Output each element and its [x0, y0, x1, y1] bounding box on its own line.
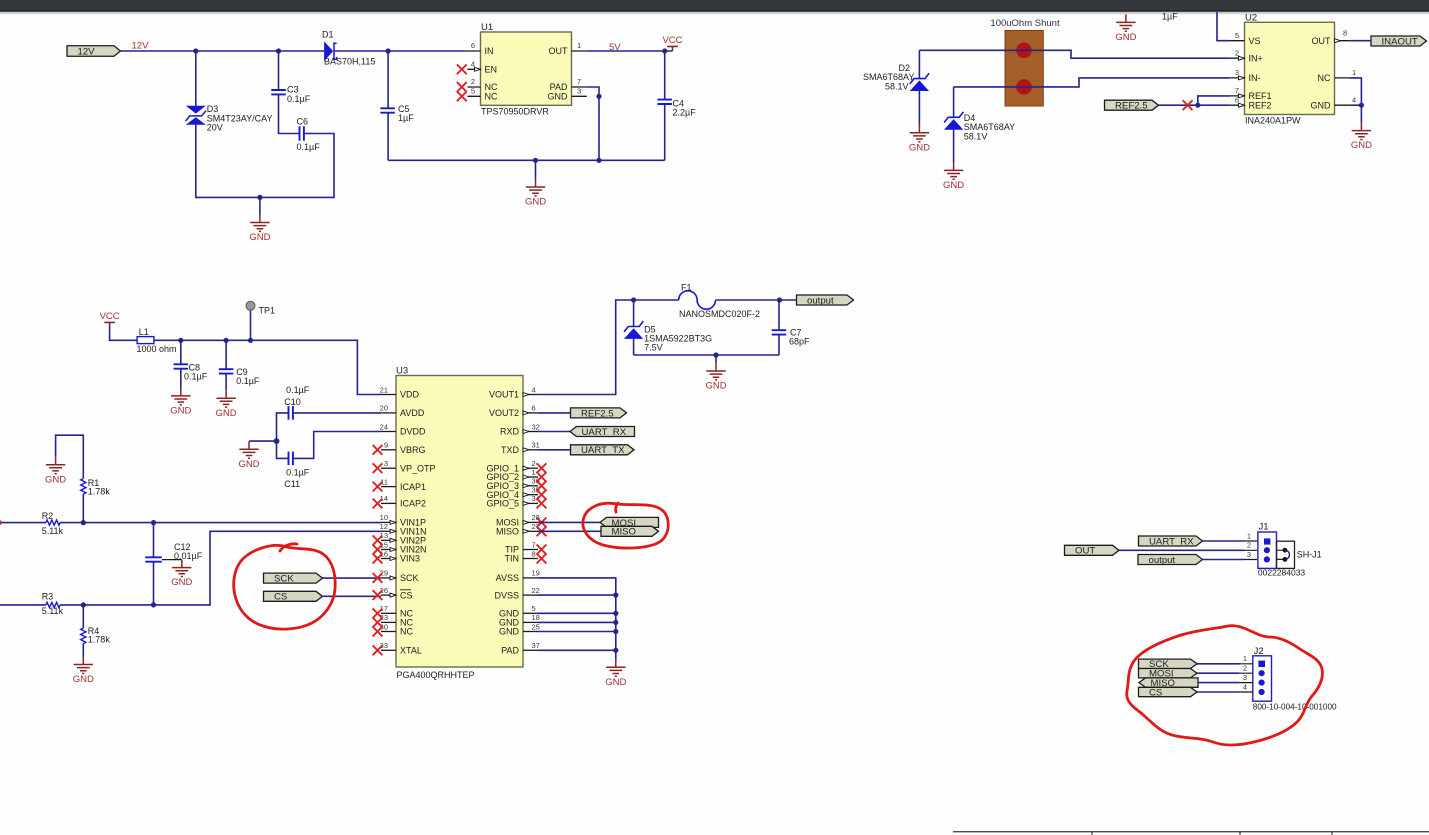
svg-text:F1: F1: [681, 283, 692, 293]
ground: [170, 388, 191, 417]
svg-text:C11: C11: [284, 479, 300, 489]
port OUT: [1065, 545, 1120, 556]
svg-text:5: 5: [532, 604, 536, 613]
no-connect X on REF wire: [1183, 100, 1193, 110]
svg-text:0.1µF: 0.1µF: [287, 94, 311, 104]
wire gnd pin to bus: [538, 612, 616, 614]
wire AVSS DVSS GND PAD bus: [538, 578, 616, 659]
svg-text:VS: VS: [1249, 36, 1261, 46]
svg-text:VIN3: VIN3: [400, 554, 420, 564]
svg-text:R3: R3: [42, 591, 54, 601]
port MOSI on U3: [600, 517, 659, 528]
svg-text:20: 20: [380, 404, 388, 413]
resistor R3: [42, 591, 64, 616]
svg-text:UART_RX: UART_RX: [1149, 536, 1194, 547]
toolbar drop shadow: [0, 0, 1, 1]
svg-text:MISO: MISO: [496, 527, 519, 537]
junction: [248, 338, 253, 343]
junction: [596, 158, 601, 163]
svg-text:58.1V: 58.1V: [885, 81, 909, 91]
junction: [178, 338, 183, 343]
svg-text:9: 9: [384, 441, 388, 450]
svg-text:IN: IN: [485, 46, 494, 56]
svg-text:3: 3: [577, 87, 581, 96]
wire VOUT1 riser to fuse rail: [538, 300, 679, 395]
svg-text:2: 2: [532, 459, 536, 468]
svg-text:C6: C6: [297, 116, 309, 126]
junction: [81, 602, 86, 607]
svg-text:RXD: RXD: [500, 427, 520, 437]
junction: [613, 648, 618, 653]
junction: [1195, 103, 1200, 108]
junction: [224, 338, 229, 343]
shunt jumper SH-J1: [1277, 541, 1322, 568]
resistor R1: [81, 478, 111, 497]
no-connect X on U3 pin 2: [537, 463, 547, 473]
svg-text:1µF: 1µF: [1162, 12, 1178, 22]
wire left to R3: [0, 604, 46, 606]
no-connect X on U3 pin 30: [373, 627, 383, 637]
red marker circle around MOSI MISO: [583, 503, 668, 548]
wire MOSI pin to port: [538, 521, 600, 523]
wire shunt top to U2 IN+: [919, 50, 1229, 58]
wire U1 OUT to VCC: [587, 50, 673, 52]
svg-text:2: 2: [1247, 541, 1251, 550]
wire bottom gnd rail: [388, 159, 665, 161]
svg-text:6: 6: [532, 404, 536, 413]
junction: [713, 352, 718, 357]
svg-text:REF2.5: REF2.5: [1115, 101, 1148, 112]
svg-text:2: 2: [1243, 664, 1247, 673]
junction: [151, 520, 156, 525]
svg-text:J1: J1: [1259, 522, 1269, 533]
port SCK to J2: [1139, 659, 1198, 670]
no-connect X on U3 pin 9: [373, 445, 383, 455]
capacitor C6: [297, 116, 321, 152]
svg-text:BAS70H,115: BAS70H,115: [324, 57, 375, 67]
wire TXD to UART_TX port: [538, 449, 571, 451]
svg-text:1.78k: 1.78k: [88, 487, 111, 497]
svg-text:1: 1: [1247, 531, 1251, 540]
junction: [777, 297, 782, 302]
capacitor C9: [219, 340, 260, 390]
capacitor C5: [380, 51, 414, 160]
svg-text:4: 4: [532, 385, 536, 394]
junction: [662, 48, 667, 53]
VCC power symbol: [100, 311, 120, 327]
no-connect X on U3 pin 15: [373, 545, 383, 555]
ground: [909, 125, 930, 154]
port UART_TX on U3: [571, 445, 635, 456]
ground: [605, 659, 626, 688]
junction: [533, 158, 538, 163]
no-connect X on U3 pin 27: [537, 526, 547, 536]
junction: [613, 593, 618, 598]
shunt pad top: [1016, 43, 1032, 59]
svg-text:U2: U2: [1245, 12, 1257, 23]
svg-text:1: 1: [532, 468, 536, 477]
wire gnd pin to bus: [538, 594, 616, 596]
port MOSI to J2: [1139, 669, 1198, 680]
port CS: [264, 591, 323, 602]
ground: [216, 390, 237, 419]
no-connect X on U3 pin 35: [537, 490, 547, 500]
svg-text:32: 32: [532, 422, 540, 431]
svg-text:8: 8: [1343, 29, 1347, 38]
ground: [171, 560, 192, 589]
svg-text:R2: R2: [42, 511, 54, 521]
svg-text:GND: GND: [525, 197, 546, 208]
wire R2 to U3 VIN1P: [60, 522, 381, 524]
svg-text:XTAL: XTAL: [400, 646, 422, 656]
svg-text:D1: D1: [322, 30, 334, 40]
svg-text:GND: GND: [605, 677, 626, 688]
no-connect X on U3 pin 16: [373, 554, 383, 564]
svg-text:IN+: IN+: [1249, 54, 1263, 64]
junction: [1359, 103, 1364, 108]
svg-text:ICAP2: ICAP2: [400, 499, 426, 509]
svg-text:VCC: VCC: [100, 311, 120, 322]
wire NC to GND: [1350, 78, 1362, 105]
junction: [631, 297, 636, 302]
ground: [1115, 14, 1136, 43]
wire rail to U3 VDD: [154, 340, 381, 394]
svg-text:OUT: OUT: [549, 46, 569, 56]
svg-text:12: 12: [380, 522, 388, 531]
svg-text:2: 2: [471, 77, 475, 86]
svg-text:U3: U3: [396, 366, 408, 377]
port MISO on U3: [601, 526, 659, 537]
svg-text:25: 25: [532, 622, 540, 631]
wire REF1 branch: [1198, 96, 1230, 105]
no-connect X on U1 NC5: [457, 91, 467, 101]
svg-text:GND: GND: [216, 408, 237, 419]
svg-text:GND: GND: [1311, 101, 1332, 111]
svg-text:U1: U1: [481, 22, 493, 33]
wire gnd pin to bus: [538, 621, 616, 623]
svg-text:EN: EN: [485, 65, 498, 75]
no-connect X on U3 pin 29: [373, 573, 383, 583]
wire D1 to U1 IN: [335, 50, 466, 52]
svg-text:4: 4: [1243, 682, 1247, 691]
svg-text:CS: CS: [400, 590, 413, 600]
svg-text:7: 7: [532, 540, 536, 549]
wire SCK to U3: [321, 577, 381, 579]
wire U1 PAD GND loop: [587, 87, 599, 160]
svg-text:L1: L1: [139, 327, 149, 337]
no-connect X on U3 pin 34: [537, 499, 547, 509]
capacitor C4: [657, 51, 696, 160]
svg-text:NC: NC: [1318, 73, 1331, 83]
svg-text:PGA400QRHHTEP: PGA400QRHHTEP: [397, 670, 475, 680]
resistor R4: [81, 605, 111, 657]
TVS diode D2: [863, 50, 929, 125]
svg-text:VBRG: VBRG: [400, 445, 426, 455]
junction: [613, 611, 618, 616]
capacitor C10: [277, 385, 382, 441]
capacitor C7: [772, 300, 810, 355]
svg-text:68pF: 68pF: [789, 337, 810, 347]
capacitor C3: [271, 51, 310, 134]
junction: [276, 48, 281, 53]
svg-text:12V: 12V: [78, 46, 96, 57]
wire CS to U3: [321, 595, 381, 597]
svg-text:NANOSMDC020F-2: NANOSMDC020F-2: [679, 309, 760, 319]
no-connect X on U3 pin 33: [373, 645, 383, 655]
no-connect X on U3 pin 8: [537, 554, 547, 564]
svg-text:5.11k: 5.11k: [42, 526, 64, 536]
svg-text:19: 19: [532, 569, 540, 578]
port output top: [797, 295, 854, 306]
port CS to J2: [1139, 687, 1198, 698]
IC U2 INA240A1PW: [1230, 12, 1356, 125]
svg-text:GND: GND: [170, 406, 191, 417]
svg-text:GND: GND: [943, 180, 964, 191]
svg-text:NC: NC: [400, 627, 413, 637]
no-ERC half X at left edge: [0, 518, 1, 527]
inductor L1: [137, 327, 177, 354]
svg-text:VCC: VCC: [662, 35, 682, 46]
svg-text:0022284033: 0022284033: [1258, 568, 1306, 578]
no-connect X on U3 pin 1: [537, 472, 547, 482]
svg-text:800-10-004-10-001000: 800-10-004-10-001000: [1253, 703, 1337, 712]
svg-text:TPS70950DRVR: TPS70950DRVR: [481, 106, 549, 116]
junction: [193, 48, 198, 53]
svg-text:VOUT2: VOUT2: [489, 408, 519, 418]
connector J2: [1240, 646, 1337, 712]
svg-text:INA240A1PW: INA240A1PW: [1245, 116, 1301, 126]
no-connect X on U3 pin 11: [373, 482, 383, 492]
junction: [151, 602, 156, 607]
ground: [1351, 123, 1372, 152]
svg-text:GND: GND: [238, 459, 259, 470]
svg-text:C10: C10: [284, 397, 301, 407]
connector J1: [1244, 522, 1305, 578]
wire fuse to output port: [716, 299, 797, 301]
wire MISO pin to port: [538, 530, 601, 532]
wire gnd pin to bus: [538, 649, 616, 651]
port MISO to J2: [1139, 678, 1198, 689]
svg-text:1.78k: 1.78k: [88, 634, 111, 644]
wire R1 top loop: [56, 435, 84, 478]
svg-text:GPIO_5: GPIO_5: [486, 499, 519, 509]
IC U1 TPS70950DRVR: [466, 22, 587, 116]
svg-text:output: output: [1149, 555, 1176, 566]
wire gnd tap: [249, 440, 277, 442]
wire gnd pin to bus: [538, 631, 616, 633]
port REF2.5 from U3: [571, 408, 627, 419]
svg-text:5.11k: 5.11k: [42, 606, 64, 616]
wire C12 gnd tap: [162, 559, 182, 561]
junction: [613, 629, 618, 634]
top toolbar bar: [0, 0, 1429, 12]
svg-text:0.1µF: 0.1µF: [286, 385, 310, 395]
IC U3 PGA400QRHHTEP: [380, 366, 540, 681]
svg-text:MISO: MISO: [612, 527, 637, 538]
capacitor C12: [145, 523, 202, 605]
wire RXD to UART_RX port: [538, 431, 570, 433]
svg-text:IN-: IN-: [1249, 73, 1261, 83]
capacitor C8: [174, 340, 208, 388]
svg-text:UART_RX: UART_RX: [582, 427, 627, 438]
capacitor C11: [277, 432, 382, 490]
no-connect X on U3 pin 23: [373, 618, 383, 628]
svg-text:22: 22: [532, 586, 540, 595]
no-connect X on U3 pin 26: [373, 590, 383, 600]
wire OUT to J1 pin2: [1119, 549, 1244, 551]
svg-text:0.1µF: 0.1µF: [184, 372, 208, 382]
port UART_RX to J1: [1139, 536, 1203, 547]
svg-text:21: 21: [380, 385, 388, 394]
wire GND pin: [1350, 104, 1362, 106]
svg-text:SH-J1: SH-J1: [1297, 549, 1322, 559]
shunt pad bottom: [1016, 79, 1032, 95]
wire R3 to VIN1N riser: [60, 531, 381, 605]
ground: [45, 457, 66, 486]
svg-text:ICAP1: ICAP1: [400, 482, 426, 492]
svg-text:CS: CS: [274, 592, 287, 603]
svg-text:VP_OTP: VP_OTP: [400, 463, 436, 473]
svg-text:100uOhm Shunt: 100uOhm Shunt: [990, 18, 1060, 29]
wire MOSI to J2 pin2: [1197, 672, 1240, 674]
svg-text:1: 1: [1243, 654, 1247, 663]
ground: [705, 363, 726, 392]
svg-text:0.1µF: 0.1µF: [297, 142, 321, 152]
no-connect X on U1 NC2: [457, 82, 467, 92]
svg-text:INAOUT: INAOUT: [1382, 36, 1418, 47]
no-connect X on U3 pin 7: [537, 545, 547, 555]
svg-text:TP1: TP1: [259, 306, 276, 316]
wire U2 OUT to INAOUT: [1350, 40, 1371, 42]
svg-text:0.1µF: 0.1µF: [286, 467, 310, 477]
shunt resistor body: [1005, 31, 1043, 107]
wire shunt bottom to U2 IN-: [954, 78, 1230, 87]
wire 12V to D1: [121, 50, 325, 52]
svg-text:12V: 12V: [132, 41, 150, 52]
no-connect X on U3 pin 13: [373, 535, 383, 545]
red marker circle around J2 connector: [1127, 626, 1323, 745]
svg-text:20V: 20V: [207, 123, 223, 133]
sheet border line bottom right: [953, 832, 1429, 835]
svg-text:TXD: TXD: [501, 445, 520, 455]
svg-text:3: 3: [1243, 673, 1247, 682]
svg-text:1: 1: [577, 41, 581, 50]
wire REF2.5 to REF pins: [1159, 104, 1230, 106]
svg-text:SCK: SCK: [400, 573, 419, 583]
svg-text:7: 7: [577, 77, 581, 86]
junction: [613, 620, 618, 625]
svg-text:PAD: PAD: [501, 646, 519, 656]
wire left to R2: [1, 522, 46, 524]
svg-text:GND: GND: [45, 474, 66, 485]
svg-text:GND: GND: [249, 232, 270, 243]
TVS diode D3: [186, 51, 273, 133]
svg-text:NC: NC: [485, 92, 498, 102]
svg-text:AVDD: AVDD: [400, 408, 425, 418]
svg-text:3: 3: [1247, 550, 1251, 559]
wire MISO to J2 pin3: [1198, 682, 1240, 684]
wire VS supply from top: [1217, 12, 1230, 41]
ground: [943, 162, 964, 191]
no-connect X on U3 pin 28: [537, 518, 547, 528]
svg-text:TIN: TIN: [505, 554, 520, 564]
svg-text:CS: CS: [1149, 687, 1162, 698]
wire CS to J2 pin4: [1197, 691, 1240, 693]
no-connect X on U3 pin 36: [537, 481, 547, 491]
svg-text:8: 8: [532, 549, 536, 558]
diode D1: [322, 30, 375, 67]
svg-text:GND: GND: [73, 674, 94, 685]
svg-text:1µF: 1µF: [398, 113, 414, 123]
svg-text:DVSS: DVSS: [494, 590, 519, 600]
svg-text:58.1V: 58.1V: [964, 131, 988, 141]
svg-text:4: 4: [1352, 95, 1356, 104]
junction: [596, 94, 601, 99]
no-connect X on U3 pin 14: [373, 499, 383, 509]
junction: [386, 48, 391, 53]
wire VOUT2 to REF2.5 port: [538, 412, 571, 414]
svg-text:31: 31: [532, 441, 540, 450]
ground: [525, 179, 546, 208]
svg-text:6: 6: [471, 41, 475, 50]
ground: [249, 215, 270, 244]
svg-text:5: 5: [471, 87, 475, 96]
port SCK: [264, 573, 323, 584]
svg-text:GND: GND: [1115, 32, 1136, 43]
port output to J1: [1138, 555, 1203, 566]
svg-text:OUT: OUT: [1075, 546, 1095, 557]
wire D3 to ground loop: [196, 125, 334, 198]
svg-text:GND: GND: [1351, 140, 1372, 151]
test point TP1: [246, 301, 275, 340]
svg-text:OUT: OUT: [1312, 36, 1332, 46]
wire VCC to L1 rail: [110, 327, 138, 341]
svg-text:SCK: SCK: [274, 574, 294, 585]
wire output to J1 pin3: [1203, 559, 1245, 561]
svg-text:GND: GND: [499, 627, 520, 637]
no-connect X on U1 EN: [457, 64, 467, 74]
svg-text:REF2: REF2: [1249, 101, 1272, 111]
svg-text:28: 28: [532, 513, 540, 522]
svg-text:24: 24: [380, 422, 388, 431]
TVS diode D4: [944, 87, 1015, 162]
svg-text:GND: GND: [171, 577, 192, 588]
svg-text:REF2.5: REF2.5: [581, 408, 614, 419]
svg-text:7.5V: 7.5V: [644, 343, 663, 353]
svg-text:AVSS: AVSS: [496, 573, 519, 583]
port UART_RX on U3: [570, 427, 635, 438]
wire SCK to J2 pin1: [1197, 663, 1240, 665]
ground: [73, 657, 94, 686]
wire R1 to R2 rail: [82, 494, 84, 522]
port 12V: [67, 46, 121, 58]
wire UART_RX to J1 pin1: [1203, 540, 1245, 542]
TVS diode D5: [624, 300, 712, 355]
svg-text:1: 1: [1352, 68, 1356, 77]
red marker circle around SCK CS: [234, 544, 335, 629]
VCC power symbol: [662, 35, 682, 51]
junction: [274, 438, 280, 444]
svg-text:3: 3: [384, 459, 388, 468]
port REF2.5 into U2: [1105, 100, 1159, 111]
wire bottom of output filter: [634, 354, 779, 356]
fuse F1: [679, 283, 760, 319]
svg-text:10: 10: [380, 513, 388, 522]
junction: [257, 195, 262, 200]
port INAOUT: [1371, 36, 1427, 47]
junction: [81, 520, 86, 525]
svg-text:2.2µF: 2.2µF: [673, 107, 697, 117]
